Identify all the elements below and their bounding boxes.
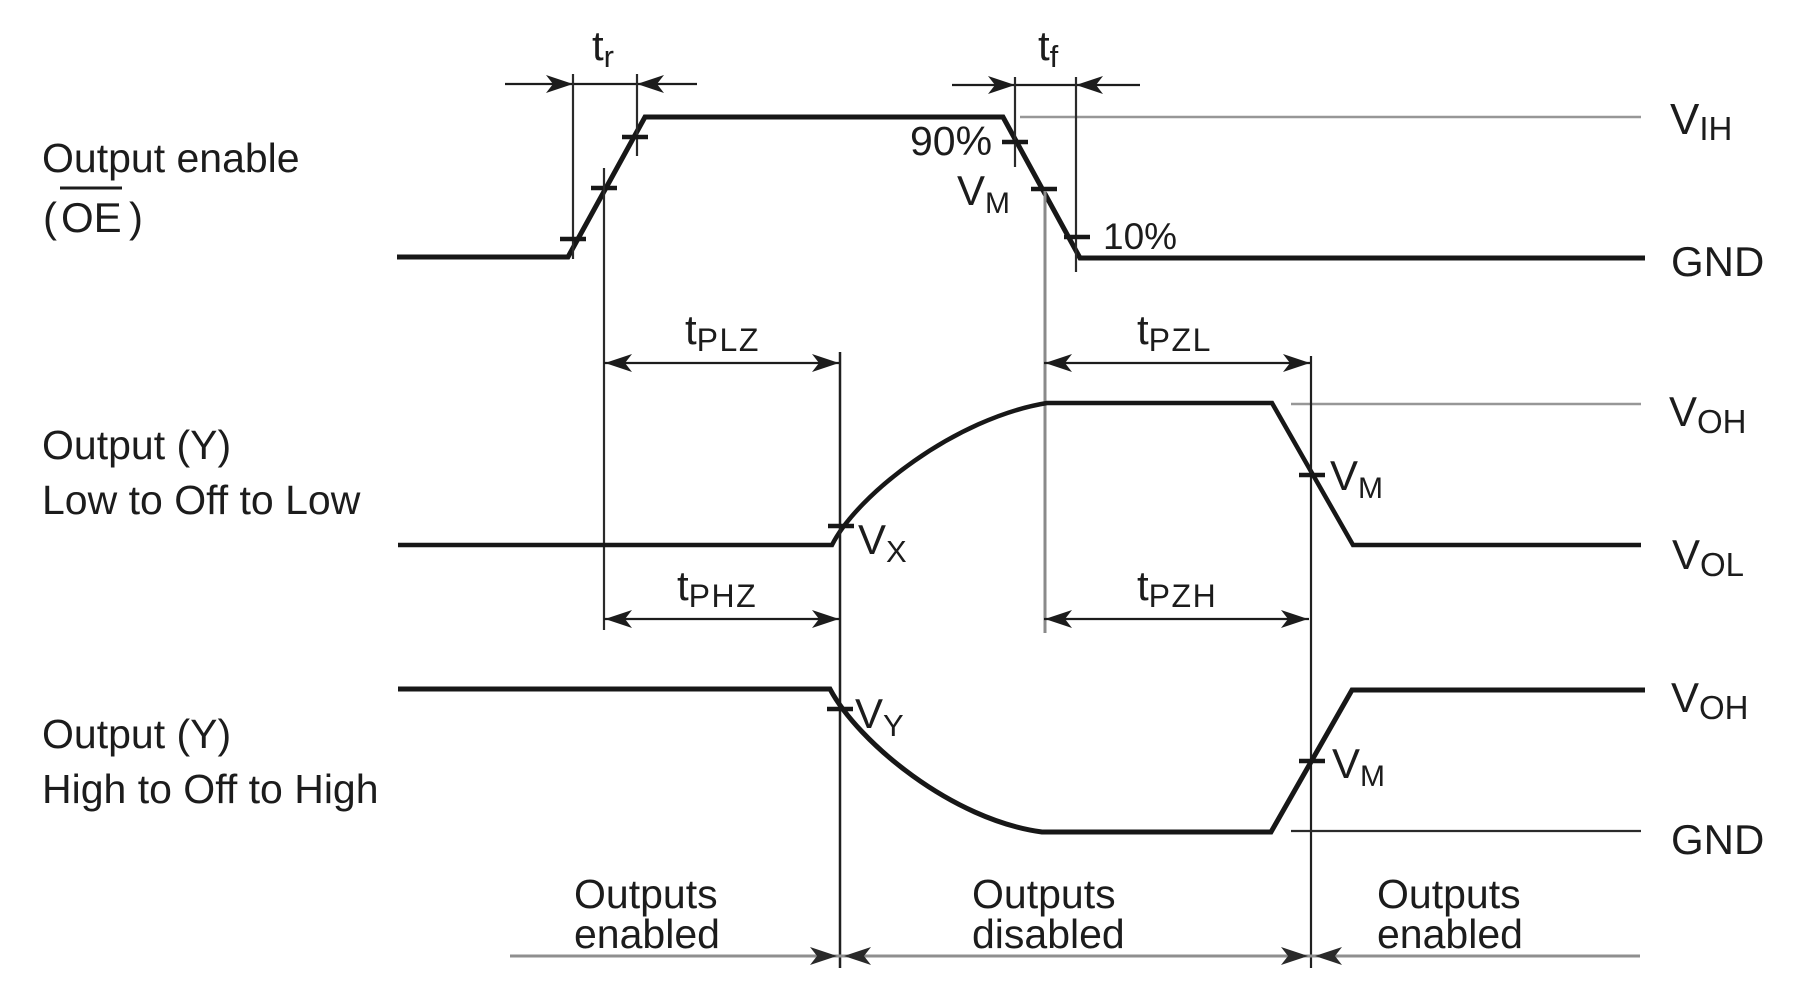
waveform Output Y low-to-off-to-low: [398, 403, 1641, 545]
svg-text:GND: GND: [1671, 816, 1764, 863]
svg-text:High to Off to High: High to Off to High: [42, 766, 379, 812]
dimension tPLZ: left-pointing arrowhead: [605, 354, 632, 372]
svg-text:90%: 90%: [910, 118, 992, 164]
svg-text:Output enable: Output enable: [42, 135, 300, 181]
label Output (Y) High to Off to High: [42, 711, 379, 812]
svg-text:enabled: enabled: [1377, 911, 1523, 957]
dimension tPLZ: line: [604, 362, 840, 364]
svg-text:GND: GND: [1671, 238, 1764, 285]
tick VM on bottom waveform rising edge: [1299, 759, 1325, 764]
dimension tr: line: [505, 83, 697, 85]
reference level line VOH (gray): [1291, 403, 1641, 406]
timeline left-pointing arrowhead at second boundary: [1315, 947, 1342, 965]
tick 90% on OE rising edge: [622, 135, 648, 140]
extension line at 90% of rising edge: [636, 74, 638, 156]
svg-text:Output (Y): Output (Y): [42, 422, 231, 468]
label ( OE ) with overline: [43, 188, 143, 241]
dimension tf: right-pointing arrowhead: [988, 76, 1015, 94]
extension line at 90% of falling edge: [1014, 77, 1016, 167]
svg-text:enabled: enabled: [574, 911, 720, 957]
dimension tPZH: line: [1044, 618, 1309, 620]
dimension tPZL: left-pointing arrowhead: [1045, 354, 1072, 372]
dimension tPHZ: right-pointing arrowhead: [812, 610, 839, 628]
reference level line VIH (gray): [1020, 116, 1641, 119]
dimension tPZH: right-pointing arrowhead: [1281, 610, 1308, 628]
tick 90% on OE falling edge: [1002, 140, 1028, 145]
timeline left-pointing arrowhead at first boundary: [844, 947, 871, 965]
dimension tPHZ: left-pointing arrowhead: [605, 610, 632, 628]
svg-text:OE: OE: [61, 194, 122, 241]
timeline right-pointing arrowhead at first boundary: [810, 947, 837, 965]
dimension tf: left-pointing arrowhead: [1076, 76, 1103, 94]
svg-text:Low to Off to Low: Low to Off to Low: [42, 477, 361, 523]
dimension tPZL: right-pointing arrowhead: [1283, 354, 1310, 372]
svg-text:10%: 10%: [1103, 216, 1177, 257]
label Output (Y) Low to Off to Low: [42, 422, 361, 523]
svg-text:disabled: disabled: [972, 911, 1125, 957]
dimension tPLZ: right-pointing arrowhead: [812, 354, 839, 372]
reference level line GND bottom (thin): [1291, 830, 1641, 832]
tick 10% on OE falling edge: [1064, 235, 1090, 240]
timeline right-pointing arrowhead at second boundary: [1281, 947, 1308, 965]
label Outputs enabled (left): [574, 871, 720, 957]
bottom timeline: [510, 955, 1640, 958]
tick VM on OE falling edge: [1031, 187, 1057, 192]
dimension tPHZ: line: [604, 618, 840, 620]
svg-text:): ): [129, 194, 143, 241]
long vertical gray line from OE falling VM down to tPZH: [1044, 191, 1047, 633]
long vertical line from OE rising VM down to tPHZ: [603, 168, 605, 630]
label Outputs enabled (right): [1377, 871, 1523, 957]
svg-text:Output (Y): Output (Y): [42, 711, 231, 757]
label Outputs disabled: [972, 871, 1125, 957]
tick VM on OE rising edge: [591, 186, 617, 191]
dimension tPZH: left-pointing arrowhead: [1045, 610, 1072, 628]
dimension tPZL: line: [1044, 362, 1311, 364]
tick 10% on OE rising edge: [560, 237, 586, 242]
svg-text:(: (: [43, 194, 57, 241]
long vertical line at end of enabled region: [839, 352, 842, 968]
waveform Output Y high-to-off-to-high: [398, 689, 1645, 832]
tick VM on middle waveform falling edge: [1299, 473, 1325, 478]
dimension tr: right-pointing arrowhead: [546, 75, 573, 93]
extension line at 10% of rising edge: [572, 74, 574, 259]
long vertical line at end of disabled region: [1310, 356, 1312, 968]
dimension tr: left-pointing arrowhead: [637, 75, 664, 93]
extension line at 10% of falling edge: [1075, 77, 1077, 272]
dimension tf: line: [952, 84, 1140, 86]
waveform OE output-enable: [397, 117, 1645, 258]
tick VY on bottom waveform: [827, 707, 853, 712]
tick VX on middle waveform: [828, 524, 854, 529]
